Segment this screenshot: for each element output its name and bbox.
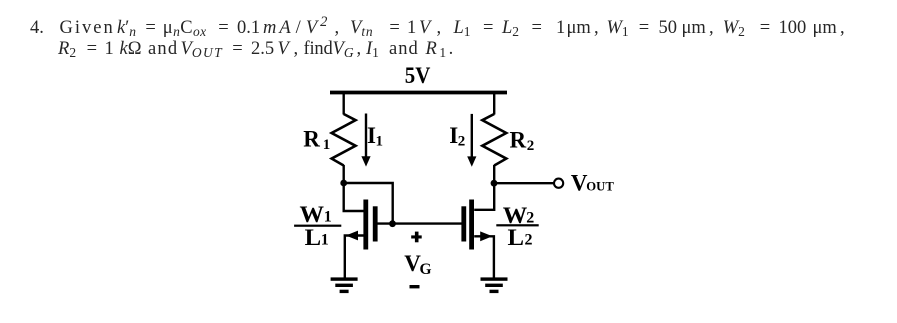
svg-text:5V: 5V bbox=[405, 63, 431, 88]
svg-text:2: 2 bbox=[458, 133, 466, 149]
svg-text:G: G bbox=[420, 261, 432, 278]
svg-text:OUT: OUT bbox=[586, 179, 614, 194]
svg-text:L: L bbox=[508, 225, 525, 250]
svg-text:1: 1 bbox=[376, 133, 384, 149]
svg-text:2: 2 bbox=[525, 232, 533, 249]
svg-text:R: R bbox=[303, 127, 320, 152]
svg-text:2: 2 bbox=[527, 138, 535, 154]
svg-text:1: 1 bbox=[323, 137, 331, 153]
svg-text:2: 2 bbox=[526, 210, 534, 227]
svg-text:1: 1 bbox=[321, 231, 329, 248]
svg-text:R: R bbox=[510, 128, 527, 153]
svg-text:W: W bbox=[300, 202, 325, 227]
svg-text:L: L bbox=[305, 225, 322, 250]
svg-text:1: 1 bbox=[324, 209, 332, 226]
